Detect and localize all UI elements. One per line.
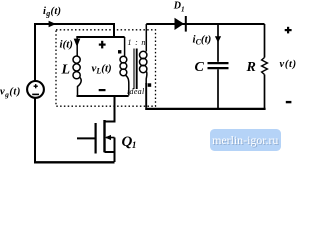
resistor R zigzag xyxy=(262,58,268,75)
svg-text:D1: D1 xyxy=(173,0,185,13)
wire bottom of L-primary loop xyxy=(77,95,129,97)
MOSFET arrow xyxy=(105,135,111,140)
wire bottom rail xyxy=(34,161,115,163)
label - (output) xyxy=(286,101,292,103)
current arrow i(t) xyxy=(74,39,81,47)
label + (output) xyxy=(285,27,292,34)
svg-text:Q1: Q1 xyxy=(122,134,137,150)
MOSFET Q1 xyxy=(77,120,115,162)
wire secondary bottom lead xyxy=(145,83,147,108)
wire output bottom rail xyxy=(145,108,265,110)
svg-text:R: R xyxy=(246,60,256,75)
transformer secondary winding xyxy=(140,24,147,84)
svg-text:C: C xyxy=(195,60,205,75)
capacitor branch wire lower xyxy=(217,69,219,108)
svg-text:L: L xyxy=(61,63,71,78)
wire secondary to diode and top output rail xyxy=(146,23,264,25)
voltage source Vg xyxy=(27,81,44,98)
svg-text:vL(t): vL(t) xyxy=(92,62,112,75)
svg-text:i(t): i(t) xyxy=(60,39,73,51)
inductor L xyxy=(73,37,81,96)
svg-text:iC(t): iC(t) xyxy=(193,34,212,47)
wire left branch upper xyxy=(34,23,36,81)
label - (v_L) xyxy=(99,89,106,91)
transformer primary winding xyxy=(120,37,129,96)
wire top rail from source to node xyxy=(34,23,114,25)
primary polarity dot xyxy=(118,50,121,53)
label + (v_L) xyxy=(99,41,106,49)
resistor branch wire lower xyxy=(264,75,266,109)
svg-text:v(t): v(t) xyxy=(280,59,297,70)
watermark merlin-igor.ru xyxy=(210,129,282,151)
svg-text:vg(t): vg(t) xyxy=(0,87,21,99)
wire node top (L parallel primary) xyxy=(76,36,124,38)
svg-text:1 : n: 1 : n xyxy=(128,38,147,47)
secondary polarity dot xyxy=(148,83,152,87)
capacitor branch wire upper xyxy=(217,24,219,62)
current arrow i_C xyxy=(215,36,221,42)
svg-text:ideal: ideal xyxy=(127,87,145,96)
transformer core xyxy=(134,49,137,90)
diode D1 xyxy=(175,16,186,32)
capacitor C plates xyxy=(208,63,229,68)
wire feed into node xyxy=(113,23,115,37)
dashed box (transformer model boundary) xyxy=(56,30,156,106)
resistor branch wire upper xyxy=(264,24,266,58)
svg-text:ig(t): ig(t) xyxy=(43,6,61,18)
MOSFET Q1 drain wire xyxy=(105,95,115,122)
wire left branch lower xyxy=(34,98,36,162)
current arrow i_g xyxy=(49,21,56,27)
